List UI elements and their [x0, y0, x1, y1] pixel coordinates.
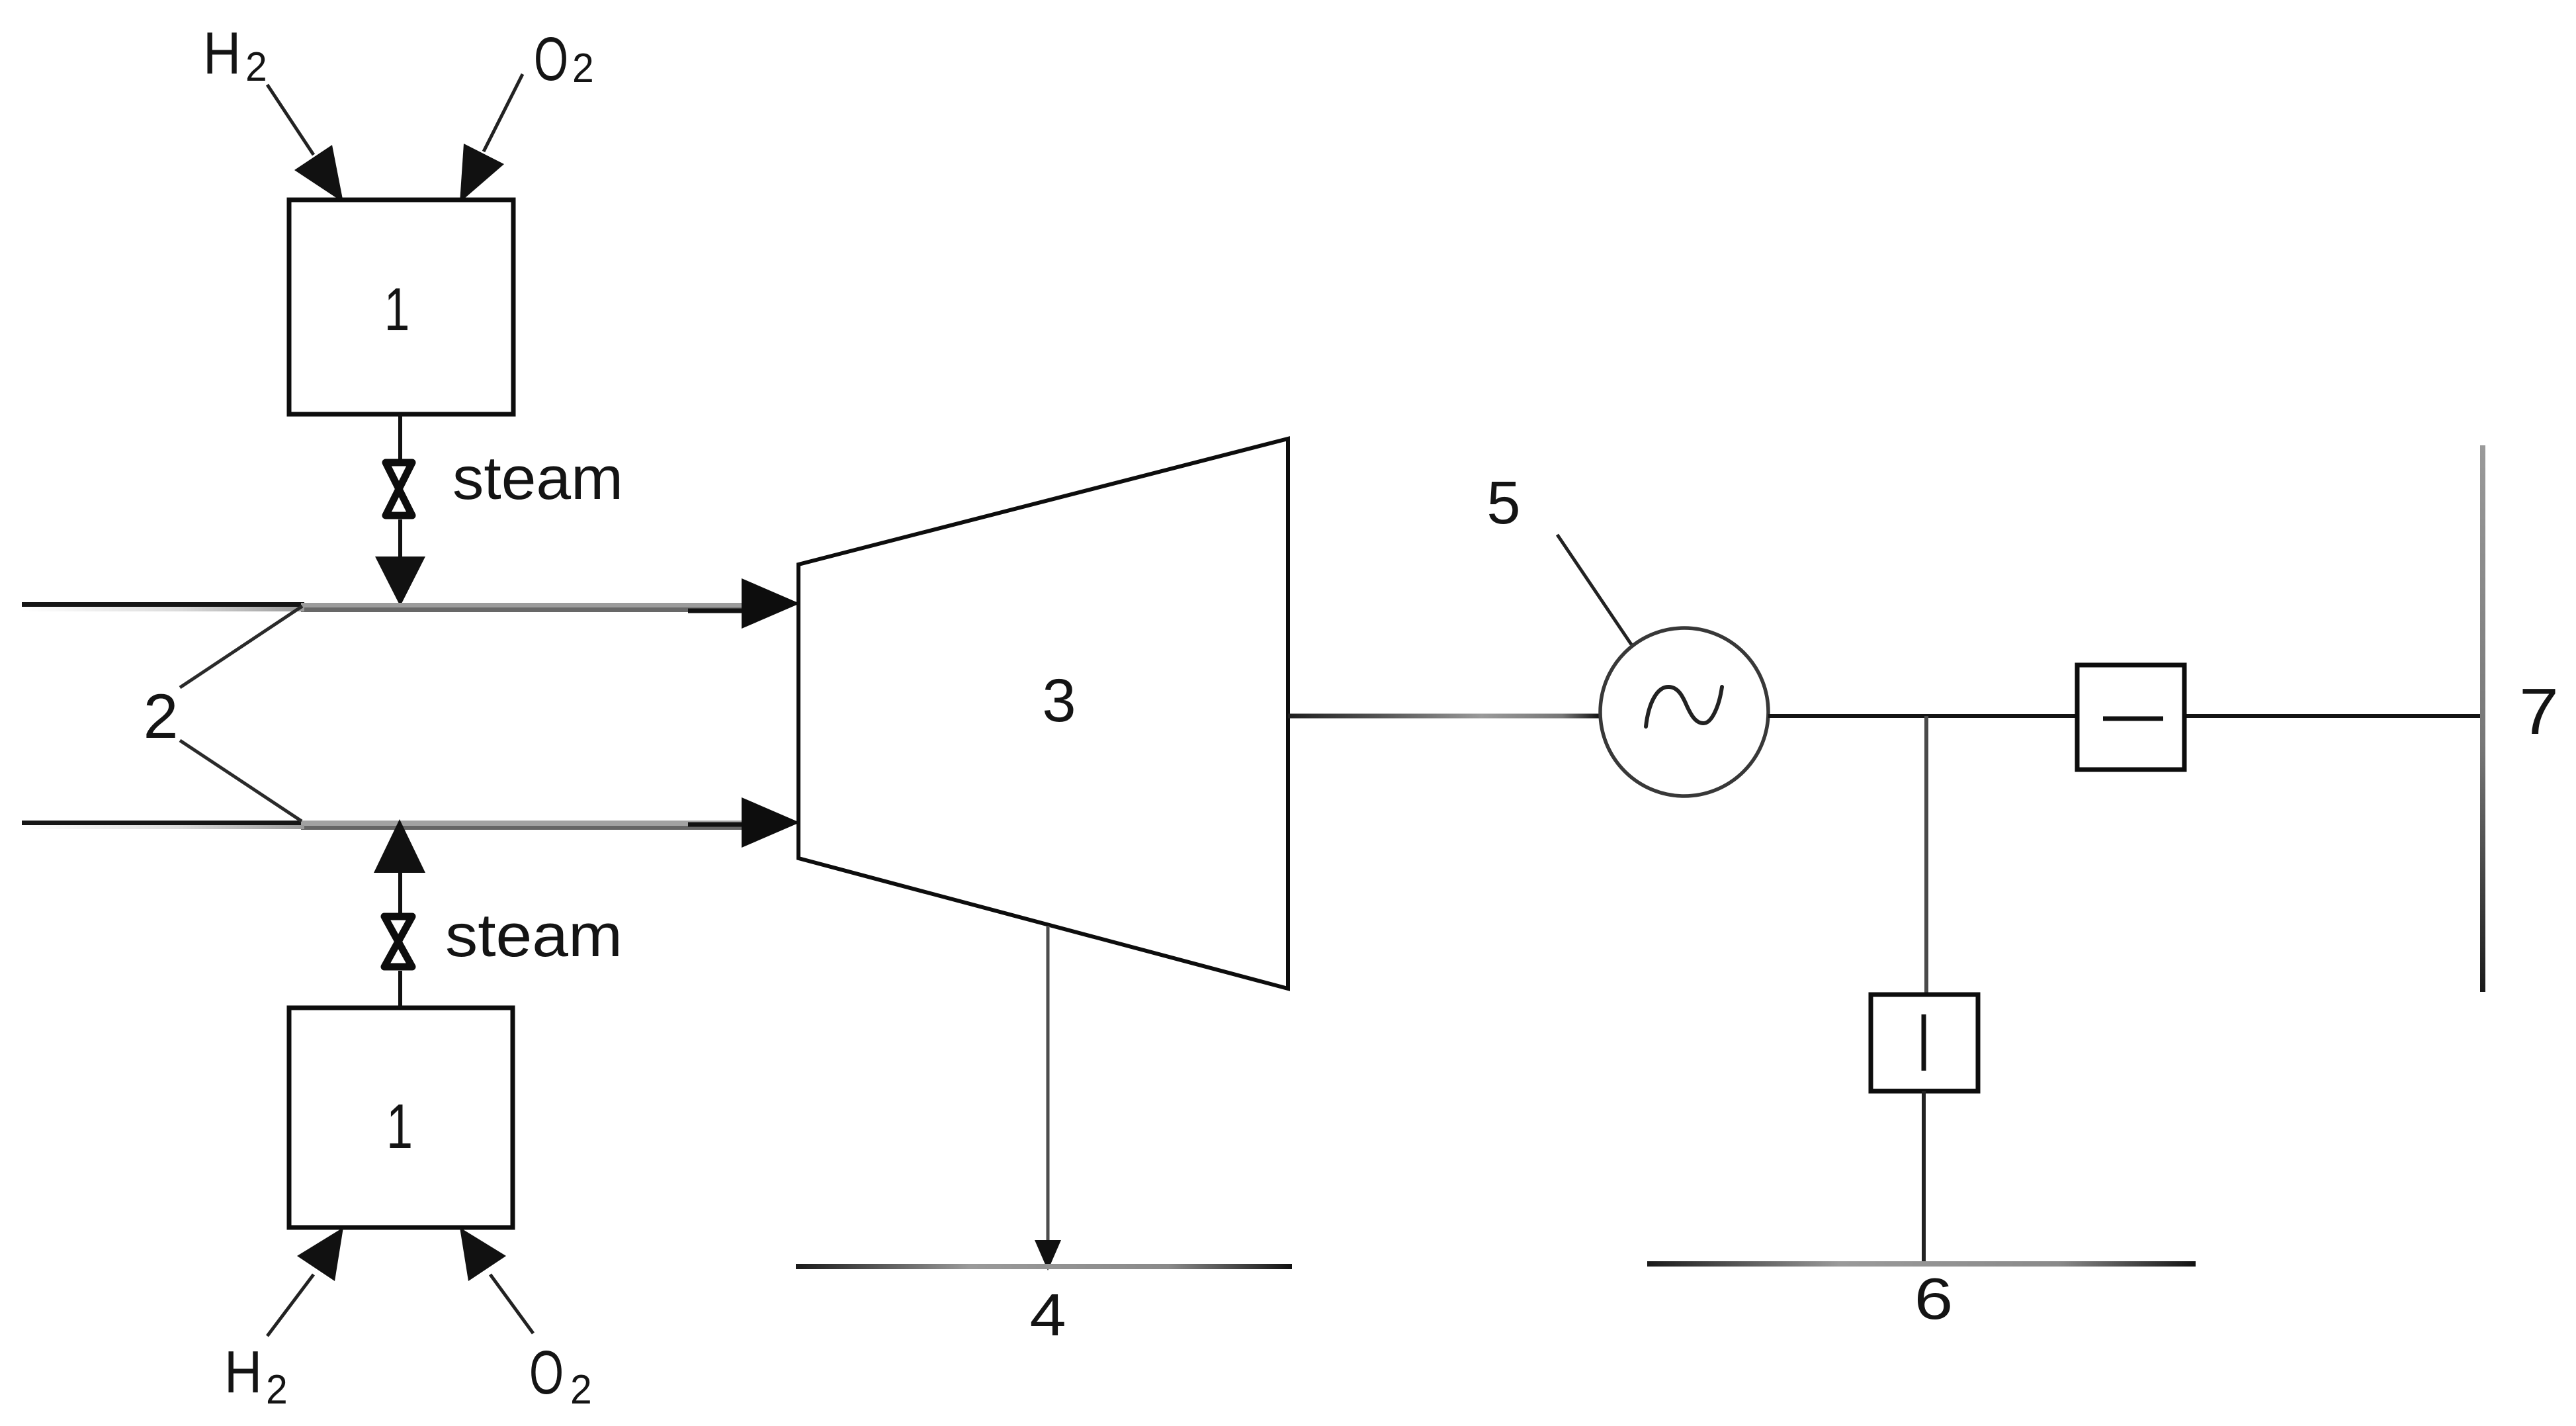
svg-text:6: 6: [1914, 1266, 1953, 1331]
svg-text:O: O: [529, 1339, 564, 1407]
svg-text:O: O: [534, 25, 568, 93]
svg-text:2: 2: [266, 1366, 288, 1413]
svg-text:1: 1: [384, 275, 409, 343]
svg-text:steam: steam: [445, 902, 623, 969]
svg-text:7: 7: [2519, 676, 2559, 748]
svg-text:2: 2: [570, 1366, 592, 1413]
svg-text:1: 1: [386, 1091, 413, 1161]
svg-text:H: H: [224, 1338, 262, 1405]
svg-text:5: 5: [1486, 469, 1520, 537]
svg-text:3: 3: [1042, 667, 1076, 735]
svg-text:steam: steam: [452, 445, 623, 512]
svg-text:H: H: [203, 19, 241, 86]
svg-text:2: 2: [245, 44, 267, 90]
svg-text:2: 2: [144, 682, 179, 752]
svg-text:2: 2: [572, 45, 594, 91]
svg-text:4: 4: [1029, 1282, 1066, 1349]
